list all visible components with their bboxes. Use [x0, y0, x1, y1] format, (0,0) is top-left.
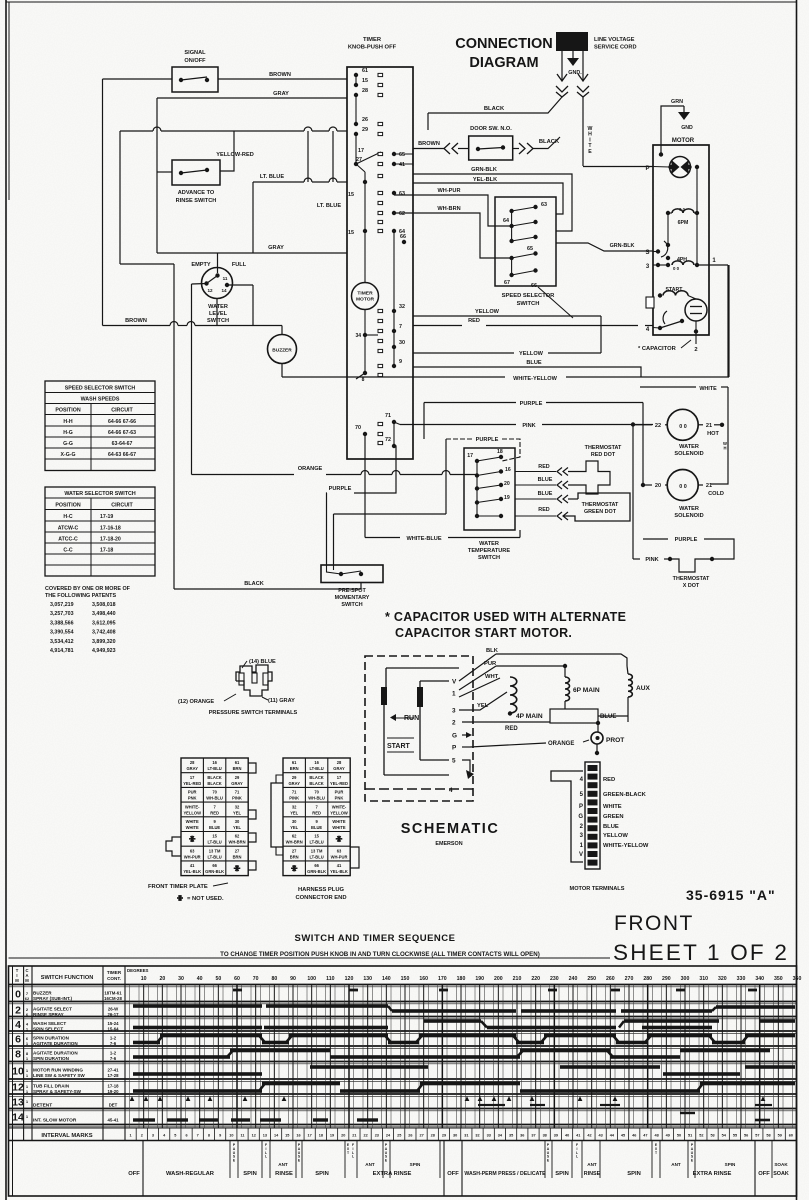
svg-text:70: 70: [212, 790, 217, 795]
svg-text:WHITE: WHITE: [186, 819, 199, 824]
svg-text:RED: RED: [538, 507, 549, 513]
svg-text:26-W: 26-W: [108, 1007, 119, 1012]
chart bars row 10: [133, 1072, 262, 1076]
schematic BLK top wire: [496, 654, 627, 666]
svg-text:= NOT USED.: = NOT USED.: [187, 896, 224, 902]
wire advance switch left: [157, 171, 172, 173]
wire water level top tap: [217, 253, 219, 273]
line voltage service cord plug: [556, 32, 588, 51]
wire BROWN signal to timer: [103, 78, 173, 80]
svg-text:THERMOSTAT: THERMOSTAT: [585, 445, 622, 451]
svg-text:10: 10: [229, 1134, 233, 1138]
svg-text:17-18: 17-18: [100, 548, 113, 554]
svg-text:0 0: 0 0: [679, 484, 687, 490]
wire PURPLE right: [643, 538, 668, 540]
chart bars row 0: [233, 989, 242, 992]
wire WHITE right: [640, 386, 696, 388]
svg-text:MOTOR: MOTOR: [672, 138, 695, 144]
buzzer: [268, 335, 297, 364]
svg-text:DET: DET: [109, 1103, 118, 1108]
svg-text:3,612,095: 3,612,095: [92, 620, 116, 626]
svg-text:18: 18: [497, 449, 503, 455]
svg-text:67: 67: [504, 280, 510, 286]
svg-text:ANT: ANT: [587, 1162, 597, 1167]
svg-text:29: 29: [292, 775, 297, 780]
svg-text:HARNESS PLUG: HARNESS PLUG: [298, 887, 345, 893]
svg-text:SPIN: SPIN: [315, 1171, 329, 1177]
wires water temp to thermostats: [515, 471, 556, 473]
svg-text:200: 200: [494, 976, 503, 982]
svg-text:19-20: 19-20: [108, 1089, 120, 1094]
svg-text:6: 6: [185, 1134, 187, 1138]
start switch notch: [646, 297, 654, 308]
svg-text:BLUE: BLUE: [311, 825, 322, 830]
wire empty contact left to orange: [192, 283, 207, 286]
svg-text:OFF: OFF: [128, 1171, 140, 1177]
svg-text:* CAPACITOR USED WITH ALTERNAT: * CAPACITOR USED WITH ALTERNATE: [385, 610, 626, 624]
wire YELLOW-RED from advance switch: [220, 150, 234, 171]
svg-text:WH-PUR: WH-PUR: [184, 854, 201, 859]
svg-text:15-64: 15-64: [108, 1027, 120, 1032]
svg-text:11: 11: [223, 276, 228, 281]
svg-text:TO CHANGE TIMER POSITION PUSH: TO CHANGE TIMER POSITION PUSH KNOB IN AN…: [220, 951, 540, 958]
svg-text:28: 28: [431, 1134, 435, 1138]
svg-text:YEL-RED: YEL-RED: [330, 781, 348, 786]
svg-text:65: 65: [399, 152, 405, 158]
svg-text:51: 51: [688, 1134, 692, 1138]
svg-text:BLACK: BLACK: [539, 139, 560, 145]
wire BLACK from service cord to door switch: [428, 97, 562, 113]
svg-text:52: 52: [699, 1134, 703, 1138]
svg-text:56: 56: [744, 1134, 748, 1138]
svg-text:20: 20: [655, 483, 661, 489]
svg-text:46: 46: [632, 1134, 636, 1138]
svg-text:61: 61: [235, 760, 240, 765]
svg-text:28: 28: [190, 760, 195, 765]
svg-text:21: 21: [706, 483, 712, 489]
svg-text:64: 64: [503, 218, 509, 224]
svg-text:RED: RED: [210, 810, 219, 815]
svg-text:3,742,408: 3,742,408: [92, 630, 116, 636]
chart interval band lines: [9, 1127, 797, 1129]
svg-text:1-2: 1-2: [110, 1036, 117, 1041]
svg-text:PINK: PINK: [645, 557, 658, 563]
svg-text:YEL: YEL: [290, 810, 298, 815]
svg-text:7-6: 7-6: [110, 1056, 117, 1061]
svg-text:OFF: OFF: [447, 1171, 459, 1177]
svg-text:41: 41: [337, 863, 342, 868]
svg-text:350: 350: [774, 976, 783, 982]
svg-text:6PM: 6PM: [678, 220, 689, 226]
svg-text:40: 40: [197, 976, 203, 982]
svg-text:P: P: [579, 804, 583, 810]
svg-text:THERMOSTAT: THERMOSTAT: [673, 576, 710, 582]
water temperature switch box: [464, 448, 515, 530]
svg-text:WHT: WHT: [485, 674, 499, 680]
svg-text:H-G: H-G: [63, 430, 73, 436]
svg-text:63: 63: [541, 202, 547, 208]
wire GRAY lower: [157, 252, 347, 254]
wire YEL-BLK: [413, 183, 563, 214]
svg-text:POSITION: POSITION: [55, 503, 80, 509]
svg-text:42: 42: [587, 1134, 591, 1138]
wire BLACK bottom: [174, 588, 361, 590]
pressure switch terminals symbol: [236, 665, 272, 696]
svg-text:CONNECTION: CONNECTION: [455, 36, 552, 52]
svg-text:13: 13: [12, 1097, 24, 1109]
schematic 4 wire: [365, 788, 473, 790]
svg-text:45: 45: [621, 1134, 625, 1138]
svg-text:17-16-18: 17-16-18: [100, 526, 121, 532]
svg-text:WASH SPEEDS: WASH SPEEDS: [81, 397, 120, 403]
svg-text:47: 47: [643, 1134, 647, 1138]
svg-text:TIMER: TIMER: [107, 970, 122, 975]
svg-text:50: 50: [215, 976, 221, 982]
svg-text:29: 29: [442, 1134, 446, 1138]
svg-text:40: 40: [565, 1134, 569, 1138]
svg-text:PNK: PNK: [335, 796, 344, 801]
svg-text:14: 14: [221, 288, 227, 293]
svg-text:22: 22: [364, 1134, 368, 1138]
svg-text:170: 170: [438, 976, 447, 982]
svg-text:15: 15: [212, 834, 217, 839]
svg-text:70: 70: [253, 976, 259, 982]
timer contact ticks: [378, 73, 383, 76]
svg-text:13 TM: 13 TM: [311, 848, 323, 853]
svg-text:RINSE: RINSE: [584, 1171, 601, 1177]
svg-text:S: S: [645, 250, 649, 256]
svg-text:0 0: 0 0: [679, 424, 687, 430]
svg-text:GRAY: GRAY: [186, 766, 198, 771]
svg-text:MOTOR TERMINALS: MOTOR TERMINALS: [570, 886, 625, 892]
svg-text:TUB FILL DRAIN: TUB FILL DRAIN: [33, 1084, 70, 1089]
chart bars row 4: [424, 1019, 481, 1023]
svg-text:15: 15: [314, 834, 319, 839]
svg-text:SWITCH: SWITCH: [478, 555, 500, 561]
svg-text:SPRAY & SAFETY-SW: SPRAY & SAFETY-SW: [33, 1089, 82, 1094]
svg-text:GRAY: GRAY: [273, 91, 289, 97]
svg-text:64-66 67-66: 64-66 67-66: [108, 419, 136, 425]
svg-text:180: 180: [457, 976, 466, 982]
svg-text:71: 71: [385, 413, 391, 419]
svg-text:34: 34: [355, 333, 361, 339]
svg-text:3,899,320: 3,899,320: [92, 639, 116, 645]
svg-text:160: 160: [419, 976, 428, 982]
svg-text:WATER SELECTOR SWITCH: WATER SELECTOR SWITCH: [64, 491, 135, 497]
water level switch: [202, 268, 233, 299]
chart bars row 12: [133, 1089, 262, 1093]
svg-text:FRONT TIMER PLATE: FRONT TIMER PLATE: [148, 884, 208, 890]
svg-text:36: 36: [520, 1134, 524, 1138]
svg-text:35-6915 "A": 35-6915 "A": [686, 887, 776, 903]
wire terminal 1: [697, 264, 728, 266]
svg-text:27: 27: [419, 1134, 423, 1138]
svg-text:17: 17: [308, 1134, 312, 1138]
svg-text:WASH-REGULAR: WASH-REGULAR: [166, 1171, 215, 1177]
svg-text:10: 10: [141, 976, 147, 982]
svg-text:32: 32: [292, 804, 297, 809]
svg-text:4,914,781: 4,914,781: [50, 648, 74, 654]
wire GRN-BLK upper: [413, 174, 572, 231]
svg-text:62: 62: [399, 211, 405, 217]
svg-text:71: 71: [292, 790, 297, 795]
svg-text:17-18-20: 17-18-20: [100, 537, 121, 543]
timer internal wires left: [355, 95, 357, 124]
svg-text:25: 25: [397, 1134, 401, 1138]
svg-text:E: E: [588, 149, 592, 155]
svg-text:M: M: [25, 978, 29, 983]
svg-text:66: 66: [212, 863, 217, 868]
speed selector contacts: [509, 209, 513, 213]
svg-text:SHEET 1 OF 2: SHEET 1 OF 2: [613, 940, 789, 965]
svg-text:30: 30: [235, 819, 240, 824]
svg-text:2: 2: [15, 1005, 21, 1017]
svg-text:21: 21: [706, 423, 712, 429]
svg-text:GREEN: GREEN: [603, 814, 624, 820]
svg-text:80: 80: [271, 976, 277, 982]
svg-text:0 0: 0 0: [673, 266, 680, 271]
svg-text:19: 19: [330, 1134, 334, 1138]
svg-text:ATCW-C: ATCW-C: [58, 526, 79, 532]
svg-text:32: 32: [399, 304, 405, 310]
svg-text:29: 29: [235, 775, 240, 780]
svg-text:16: 16: [212, 760, 217, 765]
svg-text:RED: RED: [312, 810, 321, 815]
svg-text:72: 72: [385, 437, 391, 443]
svg-text:WHITE: WHITE: [186, 825, 199, 830]
wire BROWN to door switch: [413, 148, 444, 150]
label 14 BLUE: [242, 661, 247, 668]
svg-text:50: 50: [677, 1134, 681, 1138]
svg-text:PUR: PUR: [335, 790, 344, 795]
svg-text:270: 270: [625, 976, 634, 982]
svg-text:BROWN: BROWN: [269, 72, 291, 78]
svg-text:70: 70: [355, 425, 361, 431]
svg-text:LT-BLU: LT-BLU: [309, 840, 323, 845]
connector arrows left lead: [557, 74, 567, 81]
svg-text:0: 0: [15, 989, 21, 1001]
svg-text:5: 5: [174, 1134, 176, 1138]
svg-text:SPIN SELECT: SPIN SELECT: [33, 1027, 63, 1032]
svg-text:DOOR SW. N.O.: DOOR SW. N.O.: [470, 126, 512, 132]
svg-text:60: 60: [234, 976, 240, 982]
svg-text:17-18: 17-18: [108, 1084, 120, 1089]
timer right bus: [412, 149, 414, 167]
svg-text:2: 2: [452, 720, 456, 727]
svg-text:2: 2: [141, 1134, 143, 1138]
svg-text:PURPLE: PURPLE: [520, 401, 543, 407]
svg-text:CIRCUIT: CIRCUIT: [111, 503, 133, 509]
border frame right: [796, 0, 798, 1200]
svg-text:48: 48: [654, 1134, 658, 1138]
timer contact 66: [402, 240, 406, 244]
svg-text:70: 70: [314, 790, 319, 795]
svg-text:4,949,923: 4,949,923: [92, 648, 116, 654]
wire service cord right lead WHITE: [582, 51, 584, 80]
svg-text:DETENT: DETENT: [33, 1103, 52, 1109]
svg-text:YELLOW: YELLOW: [475, 309, 500, 315]
svg-text:290: 290: [662, 976, 671, 982]
svg-text:BRN: BRN: [290, 766, 299, 771]
svg-text:RINSE SWITCH: RINSE SWITCH: [176, 198, 217, 204]
svg-text:3,534,412: 3,534,412: [50, 639, 74, 645]
svg-text:19: 19: [504, 495, 510, 501]
svg-text:SERVICE CORD: SERVICE CORD: [594, 45, 636, 51]
chart cycle dividers: [142, 1141, 144, 1197]
svg-text:8: 8: [15, 1049, 21, 1061]
svg-text:PNK: PNK: [188, 796, 197, 801]
svg-text:YELLOW: YELLOW: [519, 351, 544, 357]
svg-text:RED: RED: [603, 777, 615, 783]
svg-text:YELLOW: YELLOW: [603, 833, 628, 839]
svg-text:WHITE-: WHITE-: [185, 804, 200, 809]
svg-text:ORANGE: ORANGE: [548, 741, 574, 747]
svg-text:WHITE-BLUE: WHITE-BLUE: [406, 536, 441, 542]
svg-text:LT-BLU: LT-BLU: [309, 854, 323, 859]
svg-text:63: 63: [399, 191, 405, 197]
schematic diagonal leads BLK PUR WHT: [459, 654, 496, 681]
svg-text:120: 120: [345, 976, 354, 982]
svg-text:G-G: G-G: [63, 441, 73, 447]
svg-text:GRN: GRN: [671, 99, 683, 105]
svg-text:22: 22: [655, 423, 661, 429]
chart interval marks cells: [124, 1128, 126, 1141]
svg-text:WATER: WATER: [679, 444, 699, 450]
svg-text:43: 43: [599, 1134, 603, 1138]
svg-text:YELLOW: YELLOW: [183, 810, 201, 815]
svg-text:WASH SELECT: WASH SELECT: [33, 1021, 66, 1026]
wire motor circle right down: [696, 167, 698, 265]
svg-text:15: 15: [348, 230, 354, 236]
wire GRN and ground: [661, 106, 684, 154]
svg-text:7: 7: [399, 324, 402, 330]
svg-text:64-63 66-67: 64-63 66-67: [108, 452, 136, 458]
svg-text:30: 30: [178, 976, 184, 982]
svg-text:16: 16: [296, 1134, 300, 1138]
svg-text:20: 20: [341, 1134, 345, 1138]
svg-text:15: 15: [348, 192, 354, 198]
svg-text:240: 240: [569, 976, 578, 982]
svg-text:9: 9: [399, 359, 402, 365]
schematic YEL wire: [459, 692, 507, 710]
svg-text:4P MAIN: 4P MAIN: [516, 713, 543, 720]
svg-text:17-19: 17-19: [100, 514, 113, 520]
svg-text:17: 17: [358, 148, 364, 154]
svg-text:RED: RED: [505, 726, 518, 732]
svg-text:WH-BRN: WH-BRN: [437, 206, 460, 212]
svg-text:PINK: PINK: [289, 796, 299, 801]
svg-text:SIGNAL: SIGNAL: [184, 50, 206, 56]
svg-text:28: 28: [337, 760, 342, 765]
svg-text:START: START: [387, 743, 411, 750]
timer node 8: [363, 371, 367, 375]
timer internal vertical 2: [393, 231, 395, 366]
svg-text:4: 4: [15, 1019, 21, 1031]
svg-text:GRN-BLK: GRN-BLK: [471, 167, 497, 173]
svg-text:1: 1: [130, 1134, 132, 1138]
svg-text:15: 15: [362, 78, 368, 84]
svg-text:3,388,566: 3,388,566: [50, 620, 74, 626]
svg-text:17: 17: [190, 775, 195, 780]
svg-text:1-2: 1-2: [110, 1051, 117, 1056]
svg-text:YEL: YEL: [233, 810, 241, 815]
svg-text:LINE VOLTAGE: LINE VOLTAGE: [594, 37, 635, 43]
svg-text:WATER: WATER: [679, 506, 699, 512]
wire WHITE-YELLOW: [282, 376, 505, 378]
svg-text:G: G: [452, 733, 457, 740]
svg-text:9: 9: [219, 1134, 221, 1138]
svg-text:PURPLE: PURPLE: [476, 437, 499, 443]
svg-text:GRN-BLK: GRN-BLK: [610, 243, 635, 249]
svg-text:GREEN DOT: GREEN DOT: [584, 509, 617, 515]
svg-text:30: 30: [292, 819, 297, 824]
svg-text:WHITE: WHITE: [603, 804, 622, 810]
svg-text:WHITE-YELLOW: WHITE-YELLOW: [603, 843, 649, 849]
svg-text:SPRAY (SUB-INT.): SPRAY (SUB-INT.): [33, 996, 73, 1001]
svg-text:5: 5: [452, 758, 456, 765]
svg-text:PUR: PUR: [188, 790, 197, 795]
svg-text:* CAPACITOR: * CAPACITOR: [638, 346, 677, 352]
svg-text:(12) ORANGE: (12) ORANGE: [178, 699, 214, 705]
svg-text:M: M: [15, 978, 19, 983]
svg-text:6: 6: [15, 1034, 21, 1046]
svg-text:BLACK: BLACK: [207, 781, 221, 786]
svg-text:17: 17: [467, 453, 473, 459]
svg-text:(14) BLUE: (14) BLUE: [249, 659, 276, 665]
svg-text:YEL: YEL: [290, 825, 298, 830]
svg-text:LT-BLU: LT-BLU: [207, 854, 221, 859]
svg-text:SPIN: SPIN: [410, 1162, 421, 1167]
svg-text:C-C: C-C: [63, 548, 72, 554]
svg-text:110: 110: [326, 976, 334, 982]
svg-text:KNOB-PUSH OFF: KNOB-PUSH OFF: [348, 45, 397, 51]
svg-text:SOLENOID: SOLENOID: [674, 451, 703, 457]
wire PURPLE dash-dot to water temp: [446, 438, 472, 440]
svg-text:3: 3: [152, 1134, 154, 1138]
svg-text:260: 260: [606, 976, 615, 982]
svg-text:WHITE-: WHITE-: [332, 804, 347, 809]
door switch connector chevrons right: [513, 143, 525, 148]
svg-text:FULL: FULL: [232, 262, 247, 268]
svg-text:66: 66: [400, 234, 406, 240]
svg-text:ANT: ANT: [671, 1162, 681, 1167]
svg-text:CIRCUIT: CIRCUIT: [111, 408, 133, 414]
svg-text:7-6: 7-6: [110, 1041, 117, 1046]
svg-text:PURPLE: PURPLE: [329, 486, 352, 492]
svg-text:L: L: [576, 1155, 578, 1159]
svg-text:CONNECTOR END: CONNECTOR END: [295, 895, 346, 901]
coil 6PM: [666, 211, 670, 215]
svg-text:140: 140: [382, 976, 391, 982]
wire jog to black net: [120, 263, 174, 265]
motor terminals strip: [585, 762, 600, 869]
timer right contacts lower: [392, 309, 396, 313]
svg-text:PRESSURE SWITCH TERMINALS: PRESSURE SWITCH TERMINALS: [209, 710, 298, 716]
svg-text:8: 8: [362, 377, 365, 383]
svg-text:18TM-61: 18TM-61: [104, 991, 122, 996]
svg-text:MOTOR RUN WINDING: MOTOR RUN WINDING: [33, 1068, 83, 1073]
svg-text:90: 90: [290, 976, 296, 982]
svg-text:SWITCH: SWITCH: [517, 301, 540, 307]
svg-text:BROWN: BROWN: [418, 141, 440, 147]
svg-text:THE FOLLOWING PATENTS: THE FOLLOWING PATENTS: [45, 593, 116, 599]
svg-text:18: 18: [319, 1134, 323, 1138]
svg-text:100: 100: [307, 976, 316, 982]
wire capacitor to 2: [695, 332, 697, 345]
svg-text:SPIN DURATION: SPIN DURATION: [33, 1056, 70, 1061]
svg-text:0 0: 0 0: [679, 207, 685, 212]
svg-text:37: 37: [531, 1134, 535, 1138]
